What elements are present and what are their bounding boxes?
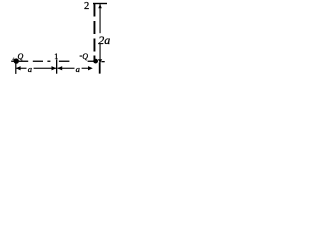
wire dashed vertical line from point 2 down to charge -Q <box>94 3 96 62</box>
svg-text:a: a <box>28 64 32 74</box>
dimension line 2a (vertical) <box>98 4 102 74</box>
svg-text:Q: Q <box>18 52 24 61</box>
charge -Q dot <box>93 59 98 64</box>
svg-text:2: 2 <box>84 1 89 12</box>
node 2 tick (top cap) <box>93 3 107 4</box>
wire dashed horizontal line from +Q through node 1 to -Q <box>11 61 105 63</box>
dimension line a (right span, 1 to -Q) <box>57 66 92 70</box>
svg-text:Q: Q <box>82 52 88 61</box>
tick below +Q <box>15 59 16 74</box>
dimension line a (left span, +Q to 1) <box>16 66 57 70</box>
extension line below -Q (right end) <box>99 62 100 73</box>
svg-text:2a: 2a <box>98 33 110 47</box>
label -Q <box>80 56 82 57</box>
svg-text:a: a <box>76 64 80 74</box>
node 1 tick <box>56 59 57 73</box>
charge +Q dot <box>14 58 19 63</box>
